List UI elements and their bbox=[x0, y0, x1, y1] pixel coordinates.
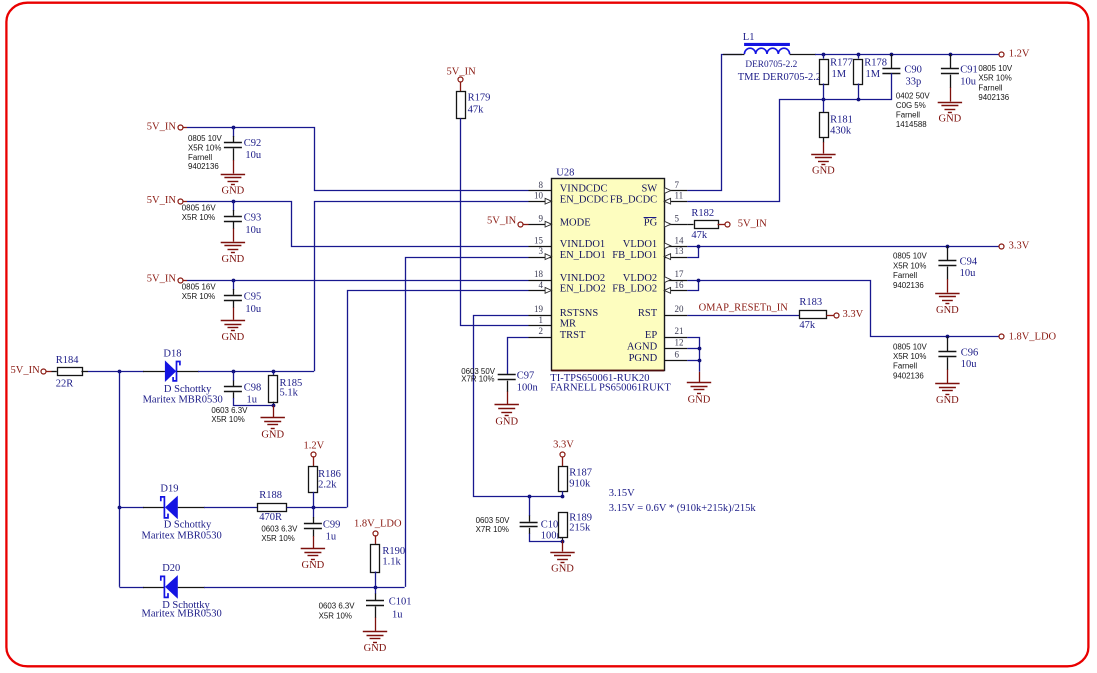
svg-text:X5R 10%: X5R 10% bbox=[319, 611, 352, 620]
svg-text:R184: R184 bbox=[56, 355, 80, 366]
svg-text:D20: D20 bbox=[162, 563, 180, 574]
svg-text:0402 50V: 0402 50V bbox=[896, 92, 931, 101]
svg-text:215k: 215k bbox=[569, 523, 591, 534]
svg-text:11: 11 bbox=[675, 191, 684, 201]
ground under C96 bbox=[935, 383, 959, 385]
resistor R187 bbox=[559, 467, 568, 492]
svg-text:10u: 10u bbox=[961, 359, 978, 370]
svg-text:5V_IN: 5V_IN bbox=[447, 66, 477, 77]
svg-text:C95: C95 bbox=[244, 291, 262, 302]
svg-text:FB_LDO1: FB_LDO1 bbox=[612, 250, 657, 261]
resistor R178 bbox=[858, 54, 860, 59]
pin 6 stub bbox=[664, 360, 687, 362]
svg-text:3.15V = 0.6V * (910k+215k)/215: 3.15V = 0.6V * (910k+215k)/215k bbox=[609, 503, 757, 514]
svg-text:0603 6.3V: 0603 6.3V bbox=[211, 406, 248, 415]
resistor R183 bbox=[800, 311, 827, 319]
pin 16 stub bbox=[664, 290, 687, 292]
pin 5 stub bbox=[664, 224, 687, 226]
wire row2 net to pin 15 VINLDO1 bbox=[187, 202, 529, 247]
PG overline bbox=[644, 217, 657, 219]
svg-text:GND: GND bbox=[222, 254, 245, 265]
svg-text:X5R 10%: X5R 10% bbox=[893, 261, 926, 270]
wire diode column vertical bbox=[119, 371, 121, 587]
resistor R190 bbox=[371, 545, 380, 573]
svg-text:R190: R190 bbox=[382, 546, 405, 557]
ground under C92 bbox=[221, 174, 245, 176]
svg-text:1.2V: 1.2V bbox=[304, 440, 325, 451]
wire row1 net to pin 8 VINDCDC bbox=[187, 128, 529, 191]
ground under C94 bbox=[935, 293, 959, 295]
svg-text:9402136: 9402136 bbox=[893, 281, 924, 290]
svg-text:2.2k: 2.2k bbox=[318, 479, 337, 490]
capacitor C98 bbox=[233, 371, 235, 381]
pin 11 stub bbox=[664, 201, 687, 203]
svg-text:FARNELL PS650061RUKT: FARNELL PS650061RUKT bbox=[550, 382, 671, 393]
svg-text:Maritex MBR0530: Maritex MBR0530 bbox=[142, 531, 222, 542]
svg-text:VINLDO1: VINLDO1 bbox=[560, 239, 606, 250]
svg-text:R187: R187 bbox=[569, 468, 592, 479]
svg-text:3.15V: 3.15V bbox=[609, 488, 635, 499]
svg-text:C90: C90 bbox=[904, 65, 922, 76]
wire pin 21 EP to ground bbox=[687, 338, 699, 372]
svg-text:Farnell: Farnell bbox=[893, 362, 917, 371]
svg-text:X5R 10%: X5R 10% bbox=[893, 352, 926, 361]
svg-text:FB_DCDC: FB_DCDC bbox=[610, 194, 657, 205]
svg-text:D Schottky: D Schottky bbox=[164, 384, 212, 395]
svg-text:1u: 1u bbox=[326, 532, 337, 543]
svg-text:X5R 10%: X5R 10% bbox=[211, 415, 244, 424]
svg-text:D Schottky: D Schottky bbox=[164, 519, 212, 530]
capacitor C99 bbox=[313, 507, 315, 517]
svg-text:Farnell: Farnell bbox=[893, 271, 917, 280]
svg-text:R182: R182 bbox=[691, 208, 714, 219]
svg-text:9402136: 9402136 bbox=[978, 93, 1009, 102]
svg-text:16: 16 bbox=[675, 280, 685, 290]
svg-text:GND: GND bbox=[551, 564, 574, 575]
svg-text:9402136: 9402136 bbox=[893, 371, 924, 380]
svg-text:3: 3 bbox=[539, 246, 544, 256]
svg-text:X5R 10%: X5R 10% bbox=[188, 143, 221, 152]
wire D18 cathode row bbox=[198, 371, 314, 373]
svg-text:X5R 10%: X5R 10% bbox=[182, 213, 215, 222]
port 1.8V_LDO right bbox=[999, 334, 1004, 339]
svg-text:SW: SW bbox=[641, 184, 657, 195]
svg-text:47k: 47k bbox=[691, 230, 708, 241]
pin 19 stub bbox=[529, 315, 552, 317]
node VLDO2 branch bbox=[697, 279, 701, 283]
svg-text:0603 50V: 0603 50V bbox=[476, 516, 511, 525]
resistor R181 bbox=[823, 99, 825, 112]
svg-text:6: 6 bbox=[675, 350, 680, 360]
svg-text:0805 16V: 0805 16V bbox=[182, 282, 217, 291]
svg-text:4: 4 bbox=[539, 280, 544, 290]
node rail R177 bbox=[822, 53, 826, 57]
svg-text:GND: GND bbox=[261, 430, 284, 441]
node R189 bottom bbox=[561, 540, 565, 544]
svg-text:X5R 10%: X5R 10% bbox=[261, 534, 294, 543]
node R190/C101 junction bbox=[374, 586, 378, 590]
svg-text:0603 6.3V: 0603 6.3V bbox=[319, 602, 356, 611]
svg-text:Farnell: Farnell bbox=[896, 110, 920, 119]
wire pin 14 VLDO1 to 3.3V bbox=[687, 246, 998, 248]
node rail C91 bbox=[949, 53, 953, 57]
capacitor C90 bbox=[891, 54, 893, 69]
svg-text:C97: C97 bbox=[517, 371, 535, 382]
svg-text:TRST: TRST bbox=[560, 330, 586, 341]
resistor R182 bbox=[687, 224, 693, 226]
wire pin 17 VLDO2 to 1.8V_LDO bbox=[687, 281, 998, 337]
svg-text:5V_IN: 5V_IN bbox=[147, 121, 177, 132]
node AGND junction bbox=[698, 347, 702, 351]
svg-text:C0G 5%: C0G 5% bbox=[896, 101, 926, 110]
node R185 junction bbox=[272, 370, 276, 374]
svg-text:C99: C99 bbox=[323, 520, 341, 531]
svg-text:VINLDO2: VINLDO2 bbox=[560, 273, 606, 284]
svg-text:1u: 1u bbox=[392, 609, 403, 620]
svg-text:C101: C101 bbox=[389, 597, 412, 608]
pin 7 stub bbox=[664, 190, 687, 192]
port 3.3V right bbox=[999, 244, 1004, 249]
svg-text:100n: 100n bbox=[517, 383, 539, 394]
diode D20 bbox=[119, 587, 144, 589]
svg-text:GND: GND bbox=[222, 332, 245, 343]
svg-text:PG: PG bbox=[644, 217, 658, 228]
svg-text:GND: GND bbox=[939, 114, 962, 125]
diode D18 bbox=[119, 371, 144, 373]
svg-text:1.1k: 1.1k bbox=[382, 557, 401, 568]
pin 13 stub bbox=[664, 257, 687, 259]
pin 12 stub bbox=[664, 348, 687, 350]
wire D20 row to EN_LDO1 bbox=[204, 587, 405, 589]
port 5V_IN at R182 bbox=[718, 224, 725, 226]
ground under R189 bbox=[562, 541, 564, 552]
node rail C90 bbox=[890, 53, 894, 57]
capacitor C96 bbox=[947, 337, 949, 352]
node C96 junction bbox=[946, 335, 950, 339]
svg-text:PGND: PGND bbox=[629, 353, 658, 364]
svg-text:R179: R179 bbox=[468, 93, 491, 104]
capacitor C92 bbox=[233, 127, 235, 137]
svg-text:2: 2 bbox=[539, 326, 544, 336]
svg-text:19: 19 bbox=[534, 304, 544, 314]
svg-text:GND: GND bbox=[364, 643, 387, 654]
svg-text:VLDO2: VLDO2 bbox=[623, 273, 657, 284]
wire R188 to LDO1 node bbox=[287, 507, 347, 509]
capacitor C101 bbox=[375, 587, 377, 594]
wire R179 to pin 1 MR bbox=[461, 118, 529, 325]
resistor R184 bbox=[52, 371, 57, 373]
node diode column top bbox=[118, 370, 122, 374]
pin 17 stub bbox=[664, 280, 687, 282]
wire pin 7 SW to inductor L1 bbox=[687, 55, 742, 191]
pin 9 stub bbox=[529, 224, 552, 226]
svg-text:1.2V: 1.2V bbox=[1009, 49, 1030, 60]
svg-text:10u: 10u bbox=[960, 268, 977, 279]
capacitor C91 bbox=[950, 54, 952, 69]
wire pin 20 RST OMAP_RESETn_IN bbox=[687, 315, 799, 317]
node PGND junction bbox=[698, 359, 702, 363]
node row1 C92 junction bbox=[232, 126, 236, 130]
svg-text:MODE: MODE bbox=[560, 217, 591, 228]
svg-text:0805 16V: 0805 16V bbox=[182, 203, 217, 212]
svg-text:20: 20 bbox=[675, 304, 685, 314]
pin 3 stub bbox=[529, 257, 552, 259]
svg-text:R177: R177 bbox=[830, 58, 853, 69]
svg-text:DER0705-2.2: DER0705-2.2 bbox=[745, 60, 797, 70]
svg-text:R181: R181 bbox=[830, 114, 853, 125]
port 3.3V at R183 bbox=[827, 315, 835, 317]
svg-text:GND: GND bbox=[688, 394, 711, 405]
svg-text:9: 9 bbox=[539, 214, 544, 224]
wire pin 2 TRST to C97 bbox=[508, 338, 529, 375]
svg-text:1.8V_LDO: 1.8V_LDO bbox=[354, 519, 402, 530]
svg-text:5V_IN: 5V_IN bbox=[147, 195, 177, 206]
svg-text:R183: R183 bbox=[799, 297, 822, 308]
ground under C91 bbox=[938, 102, 962, 104]
svg-text:33p: 33p bbox=[906, 77, 922, 88]
capacitor C100 bbox=[529, 496, 531, 516]
resistor R185 bbox=[273, 371, 275, 375]
svg-text:1M: 1M bbox=[832, 69, 847, 80]
node C94 junction bbox=[946, 245, 950, 249]
node row3 C95 junction bbox=[232, 279, 236, 283]
ground under C93 bbox=[221, 242, 245, 244]
svg-text:22R: 22R bbox=[56, 379, 74, 390]
svg-text:3.3V: 3.3V bbox=[553, 439, 574, 450]
svg-text:GND: GND bbox=[812, 166, 835, 177]
svg-text:3.3V: 3.3V bbox=[1009, 241, 1030, 252]
svg-text:C92: C92 bbox=[244, 138, 262, 149]
svg-text:FB_LDO2: FB_LDO2 bbox=[612, 284, 657, 295]
svg-text:18: 18 bbox=[534, 269, 544, 279]
svg-text:R188: R188 bbox=[259, 490, 282, 501]
pin 14 stub bbox=[664, 246, 687, 248]
svg-text:1u: 1u bbox=[247, 394, 258, 405]
svg-text:RST: RST bbox=[638, 308, 658, 319]
svg-text:VINDCDC: VINDCDC bbox=[560, 184, 608, 195]
capacitor C95 bbox=[233, 280, 235, 290]
svg-text:GND: GND bbox=[936, 305, 959, 316]
ground under IC EP bbox=[699, 372, 701, 382]
svg-text:9402136: 9402136 bbox=[188, 162, 219, 171]
svg-text:EP: EP bbox=[645, 330, 657, 341]
svg-text:0805 10V: 0805 10V bbox=[893, 342, 928, 351]
wire row3 net to pin 18 VINLDO2 bbox=[187, 280, 529, 282]
svg-text:3.3V: 3.3V bbox=[843, 309, 864, 320]
node divider mid R187 bbox=[561, 495, 565, 499]
node C98 junction bbox=[232, 370, 236, 374]
svg-text:0805 10V: 0805 10V bbox=[893, 252, 928, 261]
svg-text:47k: 47k bbox=[799, 320, 816, 331]
node divider mid C100 bbox=[528, 495, 532, 499]
diode D19 bbox=[119, 507, 144, 509]
svg-text:1414588: 1414588 bbox=[896, 120, 927, 129]
pin 2 stub bbox=[529, 337, 552, 339]
node VLDO1 branch bbox=[697, 245, 701, 249]
wire R184 to diode column bbox=[88, 371, 119, 373]
svg-text:1M: 1M bbox=[866, 69, 881, 80]
svg-text:10u: 10u bbox=[245, 304, 262, 315]
node row2 C93 junction bbox=[232, 200, 236, 204]
ground under C99 bbox=[301, 548, 325, 550]
svg-text:GND: GND bbox=[936, 395, 959, 406]
svg-text:430k: 430k bbox=[830, 126, 852, 137]
svg-text:MR: MR bbox=[560, 319, 576, 330]
svg-text:C94: C94 bbox=[960, 256, 978, 267]
pin 4 stub bbox=[529, 290, 552, 292]
svg-text:X5R 10%: X5R 10% bbox=[978, 74, 1011, 83]
node FB rail R177 bbox=[822, 98, 826, 102]
wire pin 4 EN_LDO2 to D19 row bbox=[348, 291, 529, 508]
ground under C95 bbox=[221, 320, 245, 322]
pin 20 stub bbox=[664, 315, 687, 317]
ground under C97 bbox=[495, 404, 519, 406]
svg-text:EN_LDO2: EN_LDO2 bbox=[560, 284, 606, 295]
svg-text:5.1k: 5.1k bbox=[280, 388, 299, 399]
svg-text:5V_IN: 5V_IN bbox=[11, 365, 41, 376]
svg-text:13: 13 bbox=[675, 246, 685, 256]
svg-text:10u: 10u bbox=[245, 225, 262, 236]
svg-text:470R: 470R bbox=[259, 512, 282, 523]
svg-text:VLDO1: VLDO1 bbox=[623, 239, 657, 250]
svg-text:8: 8 bbox=[539, 180, 544, 190]
svg-text:GND: GND bbox=[222, 186, 245, 197]
svg-text:EN_DCDC: EN_DCDC bbox=[560, 194, 608, 205]
pin 8 stub bbox=[529, 190, 552, 192]
resistor R177 bbox=[823, 54, 825, 59]
svg-text:GND: GND bbox=[495, 417, 518, 428]
svg-text:0805 10V: 0805 10V bbox=[978, 64, 1013, 73]
svg-text:15: 15 bbox=[534, 235, 544, 245]
svg-text:910k: 910k bbox=[569, 479, 591, 490]
svg-text:0805 10V: 0805 10V bbox=[188, 134, 223, 143]
node C98/R185 ground junction bbox=[272, 404, 276, 408]
svg-text:X7R 10%: X7R 10% bbox=[461, 374, 494, 383]
node FB rail R178 bbox=[857, 98, 861, 102]
pin 1 stub bbox=[529, 325, 552, 327]
wire pin 19 RSTSNS to R187/R189 divider bbox=[474, 316, 563, 497]
svg-text:C91: C91 bbox=[960, 65, 978, 76]
svg-text:X7R 10%: X7R 10% bbox=[476, 525, 509, 534]
capacitor C93 bbox=[233, 201, 235, 211]
svg-text:U28: U28 bbox=[556, 168, 574, 179]
wire 1.2V rail bbox=[815, 54, 999, 56]
wire VLDO1 to pin 13 FB_LDO1 bbox=[687, 246, 698, 258]
node rail R178 bbox=[857, 53, 861, 57]
svg-text:21: 21 bbox=[675, 326, 684, 336]
wire pin 11 FB_DCDC feedback rail bbox=[687, 73, 891, 201]
svg-text:17: 17 bbox=[675, 269, 685, 279]
svg-text:47k: 47k bbox=[468, 104, 485, 115]
svg-text:10u: 10u bbox=[245, 150, 262, 161]
wire D19 to R188 bbox=[204, 507, 257, 509]
svg-text:RSTSNS: RSTSNS bbox=[560, 308, 599, 319]
svg-text:C96: C96 bbox=[961, 347, 979, 358]
port 1.2V right bbox=[999, 52, 1004, 57]
svg-text:Maritex MBR0530: Maritex MBR0530 bbox=[142, 609, 222, 620]
svg-text:Farnell: Farnell bbox=[978, 83, 1002, 92]
svg-text:10: 10 bbox=[534, 191, 544, 201]
capacitor C94 bbox=[947, 246, 949, 261]
wire VLDO2 to pin 16 FB_LDO2 bbox=[687, 280, 698, 291]
svg-text:5V_IN: 5V_IN bbox=[487, 216, 517, 227]
svg-text:1.8V_LDO: 1.8V_LDO bbox=[1009, 331, 1057, 342]
svg-text:1: 1 bbox=[539, 315, 544, 325]
svg-text:OMAP_RESETn_IN: OMAP_RESETn_IN bbox=[699, 303, 789, 314]
svg-text:5V_IN: 5V_IN bbox=[738, 218, 768, 229]
resistor R186 bbox=[309, 467, 318, 493]
svg-text:L1: L1 bbox=[743, 32, 755, 43]
svg-text:10u: 10u bbox=[960, 77, 977, 88]
svg-text:X5R 10%: X5R 10% bbox=[182, 292, 215, 301]
svg-text:12: 12 bbox=[675, 338, 684, 348]
svg-text:5V_IN: 5V_IN bbox=[147, 274, 177, 285]
svg-text:0603 6.3V: 0603 6.3V bbox=[261, 525, 298, 534]
pin 15 stub bbox=[529, 246, 552, 248]
svg-text:R178: R178 bbox=[864, 58, 887, 69]
svg-text:EN_LDO1: EN_LDO1 bbox=[560, 250, 606, 261]
svg-text:C98: C98 bbox=[244, 382, 262, 393]
ground under R185 bbox=[273, 405, 275, 417]
svg-text:5: 5 bbox=[675, 214, 680, 224]
svg-text:D18: D18 bbox=[163, 349, 181, 360]
svg-text:7: 7 bbox=[675, 180, 680, 190]
inductor L1 bbox=[723, 54, 744, 56]
op-amp U1 IC U28 TPS650061 body bbox=[552, 179, 665, 371]
node diode column D19 bbox=[118, 506, 122, 510]
svg-text:C93: C93 bbox=[244, 212, 262, 223]
svg-text:GND: GND bbox=[302, 560, 325, 571]
svg-text:Maritex MBR0530: Maritex MBR0530 bbox=[143, 394, 223, 405]
resistor R179 bbox=[457, 92, 466, 119]
svg-text:14: 14 bbox=[675, 235, 685, 245]
svg-text:D19: D19 bbox=[160, 484, 178, 495]
svg-text:AGND: AGND bbox=[627, 341, 658, 352]
resistor R189 bbox=[559, 513, 568, 538]
pin 21 stub bbox=[664, 337, 687, 339]
ground under C101 bbox=[363, 631, 387, 633]
wire pin 10 EN_DCDC to D18 cathode node bbox=[315, 202, 529, 372]
pin 10 stub bbox=[529, 201, 552, 203]
resistor R188 bbox=[258, 504, 287, 512]
wire pin 3 EN_LDO1 to D20 row bbox=[406, 258, 529, 587]
node R186/C99 junction bbox=[312, 506, 316, 510]
capacitor C97 bbox=[498, 374, 516, 376]
svg-text:Farnell: Farnell bbox=[188, 153, 212, 162]
svg-text:TME DER0705-2.2: TME DER0705-2.2 bbox=[738, 72, 821, 83]
pin 18 stub bbox=[529, 280, 552, 282]
ground under R181 bbox=[811, 154, 835, 156]
